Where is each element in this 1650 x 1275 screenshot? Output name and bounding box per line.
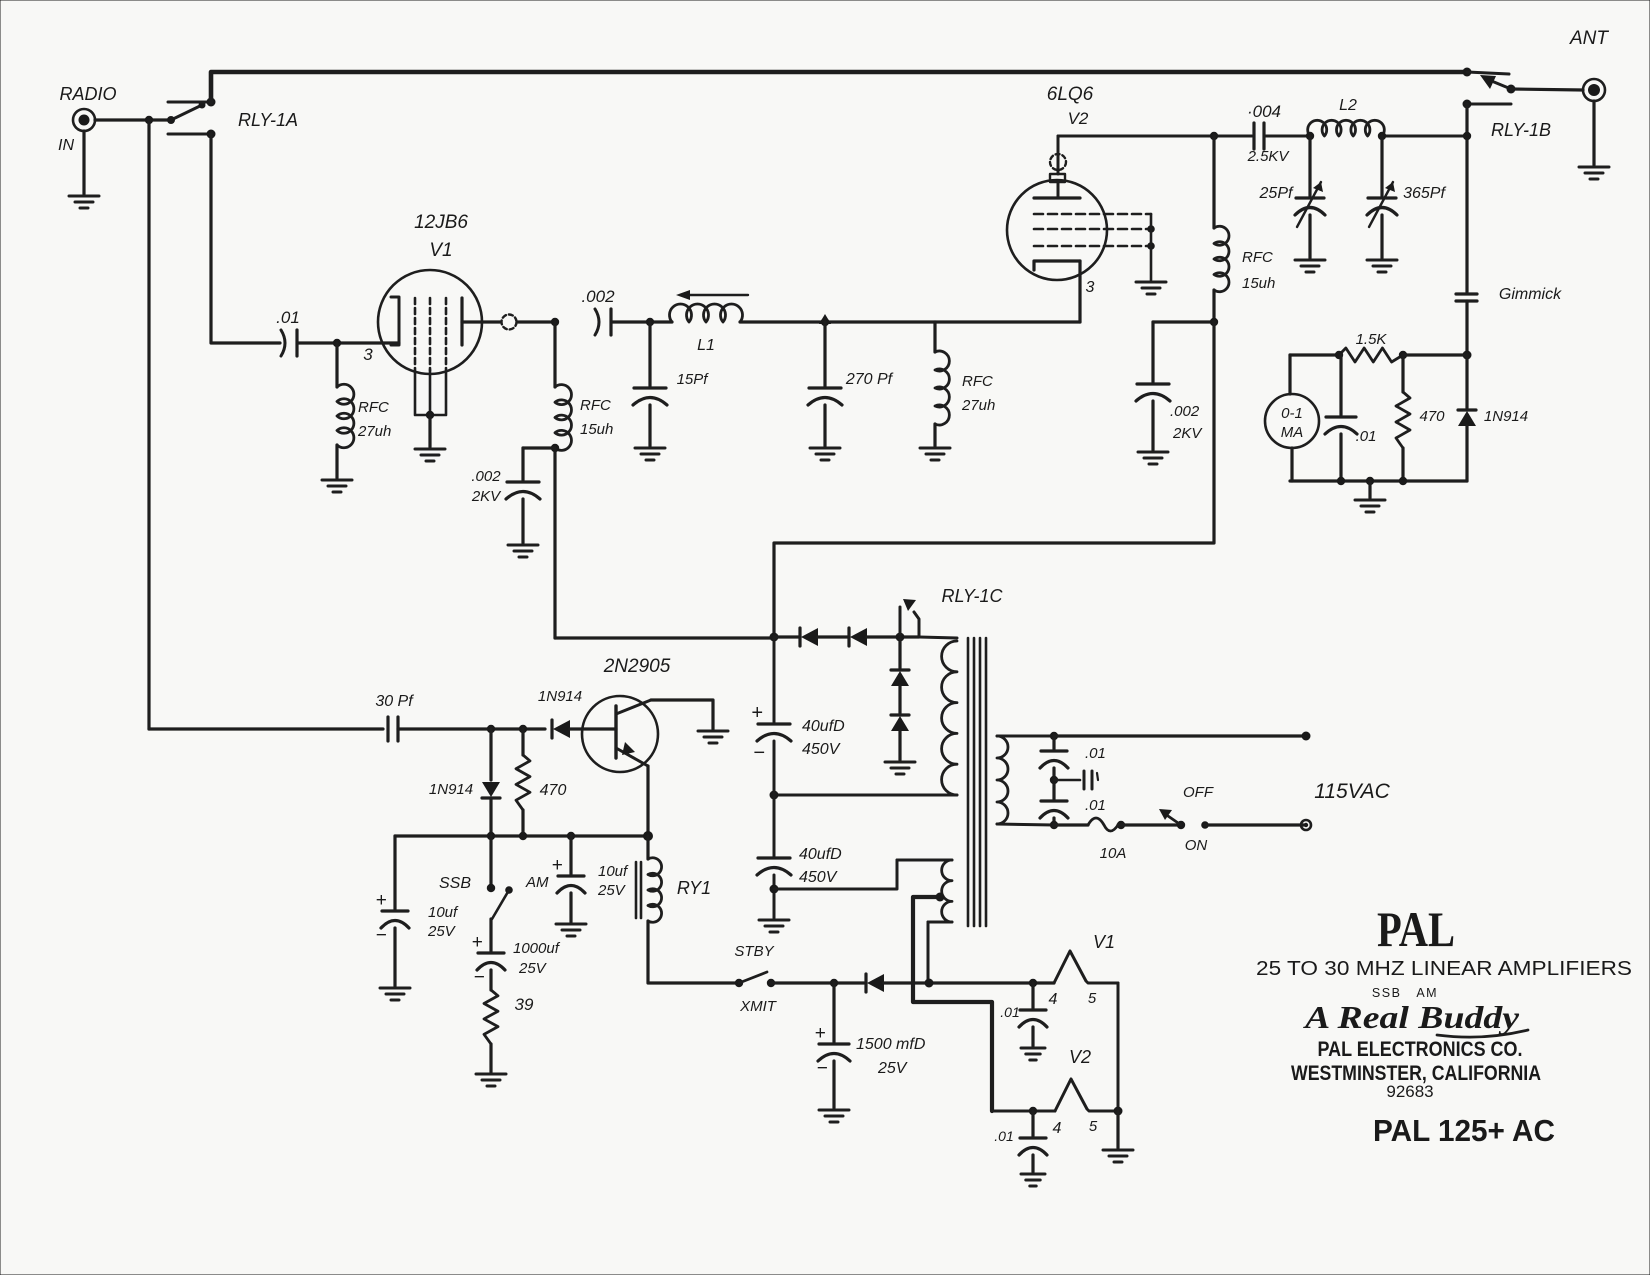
svg-text:+: +: [551, 855, 562, 876]
svg-text:V2: V2: [1069, 1047, 1091, 1067]
svg-text:39: 39: [515, 995, 534, 1014]
ground: [1355, 500, 1385, 512]
svg-text:115VAC: 115VAC: [1314, 780, 1390, 803]
svg-text:RFC: RFC: [358, 399, 389, 416]
label 30Pf: [375, 693, 414, 710]
resistor 39: [484, 990, 498, 1044]
svg-text:·004: ·004: [1247, 102, 1281, 121]
ground: [1579, 167, 1609, 179]
wire: [521, 448, 524, 480]
connector J2 ANT: [1583, 79, 1605, 101]
node junction: [1029, 1107, 1037, 1115]
tube V2 cathode: [1034, 261, 1080, 270]
svg-text:40ufD: 40ufD: [802, 718, 845, 735]
transformer T1 bias winding: [897, 860, 952, 922]
wire: [1116, 1111, 1119, 1148]
wire: [553, 448, 556, 638]
svg-text:10uf: 10uf: [428, 904, 459, 921]
node junction: [646, 318, 654, 326]
svg-text:+: +: [814, 1023, 825, 1044]
label L2: [1339, 97, 1357, 114]
ground: [476, 1074, 506, 1086]
wire: [1592, 101, 1595, 165]
ground: [920, 448, 950, 460]
ground: [1138, 452, 1168, 464]
wire: [992, 1110, 1055, 1113]
capacitor Gimmick: [1456, 294, 1477, 301]
label .002: [581, 287, 615, 306]
wire: [489, 919, 492, 951]
capacitor line-bypass stub: [1054, 771, 1098, 789]
wire bias top: [774, 860, 897, 889]
tube V2 anode cap: [1050, 136, 1066, 182]
svg-text:450V: 450V: [799, 869, 838, 886]
capacitor .004 2.5KV: [1254, 123, 1264, 149]
wire B+ from V1: [555, 636, 774, 639]
wire: [1031, 1027, 1034, 1046]
wire: [95, 118, 171, 121]
ground: [508, 545, 538, 557]
wire: [149, 727, 383, 730]
node junction: [1029, 979, 1037, 987]
wire: [1465, 355, 1468, 408]
wire: [1401, 448, 1404, 481]
wire: [884, 981, 1054, 984]
capacitor .01 (line lower): [1040, 801, 1068, 818]
inductor RFC 27uh (V2 cathode): [935, 351, 949, 425]
node junction: [145, 116, 153, 124]
capacitor C 40ufD 450V (upper): [751, 702, 791, 764]
wire: [553, 322, 556, 387]
label RFC 15uh: [1242, 249, 1275, 292]
svg-text:2KV: 2KV: [1172, 425, 1203, 442]
wire: [648, 921, 739, 983]
node junction: [1463, 132, 1471, 140]
diode 1N914 meter: [1458, 410, 1476, 426]
svg-text:.01: .01: [1085, 797, 1106, 814]
wire: [1511, 89, 1583, 90]
label 10uf 25V: [597, 863, 629, 899]
svg-text:15uh: 15uh: [580, 421, 613, 438]
wire: [211, 134, 280, 343]
node junction: [1210, 318, 1218, 326]
svg-text:SSB: SSB: [439, 875, 471, 892]
transformer T1 secondary HV: [997, 736, 1008, 824]
label 1500 mfD 25V: [856, 1036, 926, 1077]
label RY1: [677, 878, 711, 898]
svg-text:3: 3: [363, 345, 373, 364]
label Gimmick: [1499, 286, 1562, 303]
relay contact RLY-1B: [1463, 72, 1516, 109]
svg-text:L2: L2: [1339, 97, 1357, 114]
wire: [823, 405, 826, 446]
node junction: [1147, 225, 1155, 250]
svg-text:1000uf: 1000uf: [513, 940, 561, 957]
node feedthrough: [502, 315, 517, 330]
svg-text:PAL 125+ AC: PAL 125+ AC: [1373, 1113, 1555, 1148]
ground: [1367, 260, 1397, 272]
svg-text:2.5KV: 2.5KV: [1247, 148, 1291, 165]
wire: [521, 499, 524, 543]
svg-text:12JB6: 12JB6: [414, 212, 468, 233]
svg-text:ANT: ANT: [1569, 28, 1609, 49]
node junction: [1306, 132, 1386, 140]
svg-text:+: +: [375, 890, 386, 911]
label pin 4: [1053, 1120, 1062, 1137]
wire: [832, 1061, 835, 1108]
wire: [1264, 135, 1310, 138]
svg-text:PAL ELECTRONICS CO.: PAL ELECTRONICS CO.: [1318, 1038, 1523, 1061]
svg-text:−: −: [753, 742, 765, 764]
relay contact RLY-1C: [900, 599, 919, 637]
capacitor 30Pf: [388, 717, 398, 741]
svg-text:27uh: 27uh: [357, 423, 391, 440]
svg-text:.01: .01: [1000, 1004, 1019, 1020]
svg-text:4: 4: [1053, 1120, 1062, 1137]
svg-text:6LQ6: 6LQ6: [1047, 84, 1094, 105]
svg-text:25V: 25V: [427, 923, 457, 940]
node junction: [1210, 132, 1218, 140]
svg-text:−: −: [375, 925, 386, 946]
capacitor 1500 mfD 25V: [814, 983, 850, 1079]
label .01: [994, 1128, 1013, 1144]
wire emitter: [646, 766, 649, 836]
inductor RFC 27uh (V1 grid): [337, 384, 354, 447]
wire: [298, 341, 399, 344]
label RLY-1B: [1491, 120, 1551, 140]
svg-text:.002: .002: [471, 468, 501, 485]
node RADIO IN label: [58, 84, 117, 154]
label WESTMINSTER CALIFORNIA: [1291, 1061, 1541, 1085]
svg-text:15uh: 15uh: [1242, 275, 1275, 292]
wire V1 plate out: [462, 320, 555, 323]
label 470: [540, 782, 567, 799]
wire RADIO-in drop: [147, 120, 150, 729]
wire: [335, 445, 338, 478]
svg-text:4: 4: [1049, 991, 1058, 1008]
ground: [759, 920, 789, 932]
node terminal: [1301, 820, 1311, 830]
label OFF: [1183, 784, 1214, 801]
switch OFF/ON: [1159, 809, 1209, 829]
svg-text:RLY-1A: RLY-1A: [238, 110, 298, 130]
label ANT: [1569, 28, 1609, 49]
wire: [773, 637, 776, 722]
label RFC 15uh: [580, 397, 613, 438]
label 10uf 25V: [427, 904, 459, 940]
capacitor 270 Pf: [808, 388, 842, 405]
svg-text:RLY-1C: RLY-1C: [941, 586, 1003, 606]
node junction: [487, 725, 527, 733]
wire: [997, 824, 1054, 825]
label pin 5: [1089, 1118, 1098, 1135]
svg-text:1.5K: 1.5K: [1356, 331, 1388, 348]
svg-text:L1: L1: [697, 337, 715, 354]
wire: [1382, 135, 1467, 138]
wire: [648, 322, 651, 386]
label 1N914: [538, 688, 582, 705]
resistor 470 meter: [1396, 392, 1410, 448]
wire: [1401, 355, 1404, 392]
label .004: [1247, 102, 1281, 121]
label 10A: [1100, 845, 1127, 862]
wire heater tap: [913, 897, 992, 1111]
svg-text:RADIO: RADIO: [59, 84, 116, 104]
transformer T1 core: [968, 638, 986, 926]
capacitor .01 (line upper): [1040, 736, 1068, 768]
diode D5: [866, 974, 884, 992]
diode 1N914 (clamp): [482, 729, 500, 798]
node junction: [426, 411, 434, 419]
wire: [1117, 983, 1120, 1111]
svg-text:RFC: RFC: [962, 373, 993, 390]
label 40ufD 450V: [802, 718, 845, 758]
wire: [933, 322, 936, 352]
svg-text:10uf: 10uf: [598, 863, 629, 880]
svg-text:365Pf: 365Pf: [1403, 185, 1446, 202]
tube V2 envelope: [1007, 180, 1107, 280]
switch STBY/XMIT: [735, 972, 775, 987]
wire: [1031, 1155, 1034, 1172]
capacitor .002 2KV (V1 plate): [506, 482, 540, 499]
label 12JB6 V1: [414, 212, 468, 261]
capacitor C 40ufD 450V (lower): [757, 858, 791, 875]
svg-text:.002: .002: [581, 287, 615, 306]
svg-text:10A: 10A: [1100, 845, 1127, 862]
ground: [698, 731, 728, 743]
ground: [415, 449, 445, 461]
svg-text:2N2905: 2N2905: [603, 656, 671, 677]
node junction: [830, 979, 838, 987]
wire: [740, 320, 1080, 323]
svg-text:5: 5: [1089, 1118, 1098, 1135]
node junction: [936, 893, 945, 902]
wire V2 cathode lead: [1078, 261, 1081, 322]
svg-text:−: −: [816, 1058, 827, 1079]
label PAL 125+ AC: [1373, 1113, 1555, 1148]
svg-text:.01: .01: [1356, 428, 1377, 445]
wire: [1212, 136, 1215, 228]
label 365Pf: [1403, 185, 1446, 202]
wire: [1205, 823, 1306, 826]
svg-text:+: +: [751, 702, 763, 724]
label 15Pf: [677, 371, 710, 388]
svg-text:MA: MA: [1281, 424, 1304, 441]
svg-text:.01: .01: [994, 1128, 1013, 1144]
wire: [489, 798, 492, 836]
label RFC 27uh: [357, 399, 391, 440]
wire: [1052, 768, 1055, 799]
capacitor .002 2KV (V2 plate): [1136, 384, 1170, 401]
capacitor 1000uf 25V: [471, 932, 505, 988]
tube V1 grid wires: [415, 298, 446, 370]
label 39: [515, 995, 534, 1014]
svg-text:−: −: [473, 967, 484, 988]
label .01: [1356, 428, 1377, 445]
wire: [773, 875, 776, 918]
svg-text:2KV: 2KV: [471, 488, 502, 505]
wire: [1465, 426, 1468, 481]
wire: [1212, 290, 1215, 322]
label 470: [1419, 408, 1445, 425]
ground: [1295, 260, 1325, 272]
svg-text:15Pf: 15Pf: [677, 371, 710, 388]
wire: [398, 727, 545, 730]
label 92683: [1386, 1082, 1433, 1101]
label 270 Pf: [845, 371, 894, 388]
node junction: [896, 633, 905, 642]
wire: [1339, 434, 1342, 481]
wire bias rail: [395, 834, 648, 837]
wire: [1368, 481, 1371, 498]
label .01: [276, 308, 300, 327]
wire: [823, 322, 826, 386]
capacitor .002 coupling: [595, 309, 611, 335]
wire: [818, 635, 919, 638]
inductor RFC 15uh (B+): [1214, 226, 1229, 292]
wire: [1288, 355, 1291, 394]
wire: [335, 343, 338, 387]
label pin 3: [363, 345, 373, 364]
wire: [1052, 818, 1055, 825]
label 2.5KV: [1247, 148, 1291, 165]
node junction: [1463, 351, 1472, 360]
svg-text:RFC: RFC: [580, 397, 611, 414]
node junction: [770, 885, 779, 894]
label 1.5K: [1356, 331, 1388, 348]
svg-text:A Real Buddy: A Real Buddy: [1303, 999, 1520, 1035]
wire: [898, 731, 901, 760]
capacitor .01 meter: [1325, 417, 1357, 434]
label .01: [1085, 797, 1106, 814]
wire: [1153, 320, 1214, 323]
label pin 5: [1088, 990, 1097, 1007]
svg-text:SSB AM: SSB AM: [1372, 986, 1438, 1000]
label 2N2905: [603, 656, 671, 677]
wire bias bottom: [927, 922, 930, 983]
label 1N914: [1484, 408, 1528, 425]
svg-text:450V: 450V: [802, 741, 841, 758]
node junction: [770, 791, 779, 800]
ground: [885, 762, 915, 774]
wire: [1054, 734, 1306, 737]
ground: [810, 448, 840, 460]
wire: [1290, 479, 1467, 482]
wire: [1465, 104, 1468, 292]
wire collector: [651, 700, 713, 729]
ground: [1021, 1174, 1045, 1186]
svg-text:V1: V1: [429, 240, 452, 261]
wire: [1151, 322, 1154, 382]
tube V1 heater: [1054, 951, 1118, 983]
diode D1: [800, 628, 818, 646]
svg-text:1N914: 1N914: [429, 781, 473, 798]
svg-text:1N914: 1N914: [538, 688, 582, 705]
resistor 1.5K: [1339, 348, 1403, 362]
node junction: [819, 314, 831, 326]
svg-text:0-1: 0-1: [1281, 405, 1303, 422]
label STBY: [734, 943, 774, 960]
label XMIT: [739, 998, 778, 1015]
svg-text:25V: 25V: [518, 960, 548, 977]
label .01: [1085, 745, 1106, 762]
svg-text:Gimmick: Gimmick: [1499, 286, 1562, 303]
inductor L2: [1308, 120, 1385, 136]
ground: [635, 448, 665, 460]
node junction: [1335, 351, 1407, 359]
tube V1 envelope: [378, 270, 482, 374]
diode D4 (to ground): [891, 686, 909, 731]
svg-text:25V: 25V: [597, 882, 627, 899]
svg-text:RFC: RFC: [1242, 249, 1273, 266]
label PAL logo: [1377, 901, 1455, 957]
capacitor .01 (V1 heater): [1019, 983, 1047, 1027]
wire plate line: [1058, 135, 1252, 138]
label AM: [525, 874, 549, 891]
wire: [569, 893, 572, 922]
wire: [774, 635, 800, 638]
node terminal: [1302, 732, 1311, 741]
capacitor 10uf 25V (left): [375, 836, 409, 946]
relay coil RY1: [636, 836, 662, 922]
ground: [1021, 1048, 1045, 1060]
node junction: [925, 979, 934, 988]
wire: [997, 735, 1054, 738]
label A Real Buddy: [1303, 999, 1528, 1037]
tube V1 cathode: [391, 297, 399, 345]
svg-text:IN: IN: [58, 137, 74, 154]
L1 variable arrow: [676, 290, 748, 300]
label 40ufD 450V: [799, 846, 842, 886]
svg-text:ON: ON: [1185, 837, 1208, 854]
capacitor 15Pf: [633, 388, 667, 405]
label ON: [1185, 837, 1208, 854]
label 25 TO 30 MHZ LINEAR AMPLIFIERS: [1256, 958, 1632, 980]
svg-text:1500 mfD: 1500 mfD: [856, 1036, 926, 1053]
wire: [1290, 448, 1293, 481]
tube V1 grid returns: [415, 368, 446, 415]
label .002 2KV: [1170, 403, 1203, 442]
inductor L1: [670, 304, 743, 322]
wire: [489, 970, 492, 990]
capacitor .01: [281, 330, 297, 356]
wire: [648, 405, 651, 446]
node junction: [551, 318, 559, 326]
svg-text:270 Pf: 270 Pf: [845, 371, 894, 388]
svg-text:.01: .01: [276, 308, 300, 327]
svg-text:OFF: OFF: [1183, 784, 1214, 801]
wire B+ feed: [774, 322, 1214, 637]
svg-text:V1: V1: [1093, 932, 1115, 952]
label V2: [1069, 1047, 1091, 1067]
wire: [428, 415, 431, 447]
node junction pin 3: [333, 339, 341, 347]
label V1: [1093, 932, 1115, 952]
wire: [1403, 353, 1467, 356]
label pin 3: [1086, 279, 1095, 296]
label 1N914: [429, 781, 473, 798]
tube V2 heater: [1055, 1079, 1118, 1111]
svg-text:V2: V2: [1068, 109, 1089, 128]
label RFC 27uh: [961, 373, 995, 414]
wire top bus: [211, 72, 1467, 102]
node junction: [1114, 1107, 1123, 1116]
wire: [773, 741, 776, 856]
diode 1N914 (base): [552, 720, 570, 738]
wire: [570, 727, 616, 730]
svg-text:470: 470: [1419, 408, 1445, 425]
capacitor 10uf 25V (right): [551, 836, 585, 893]
